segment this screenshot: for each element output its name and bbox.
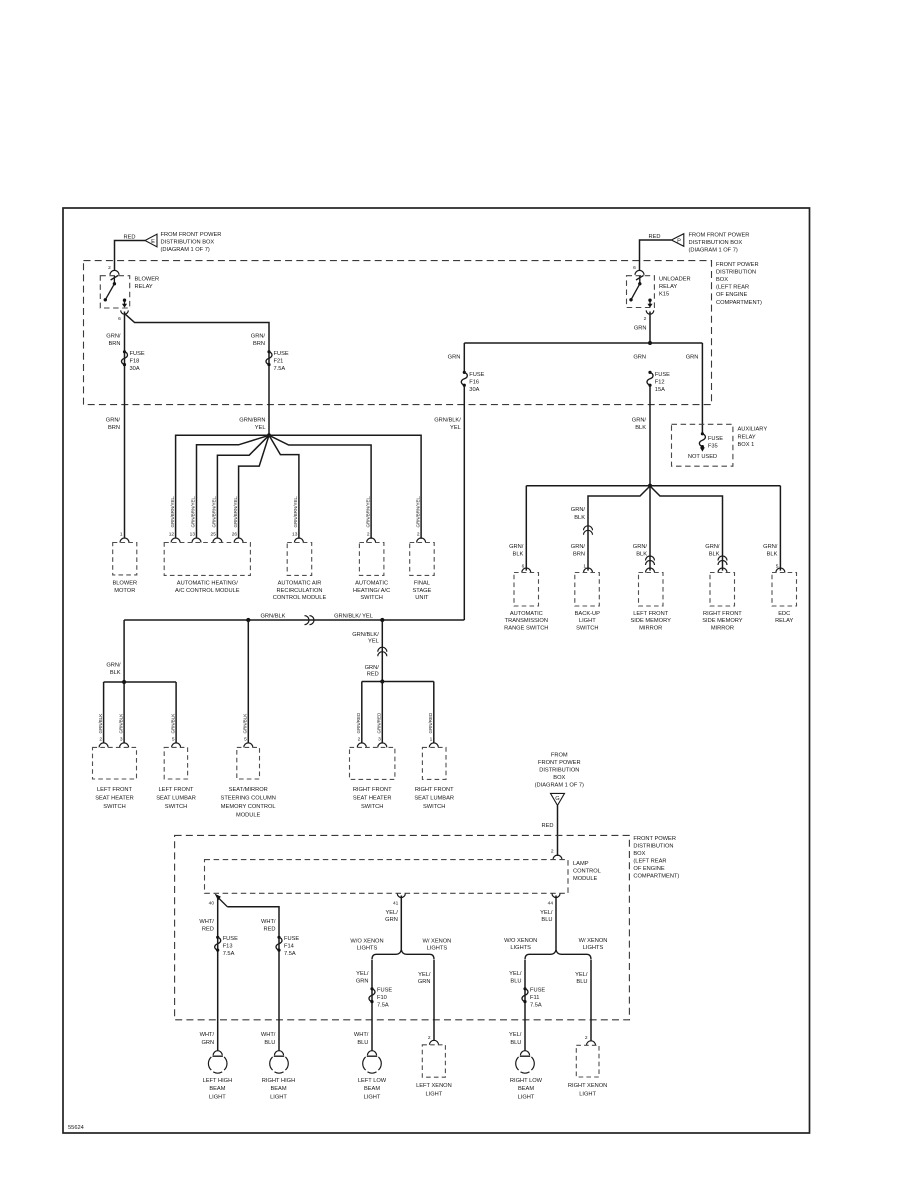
node junction GRN/BLK (right group) bbox=[648, 484, 652, 488]
svg-text:41: 41 bbox=[393, 901, 399, 907]
svg-text:3: 3 bbox=[378, 737, 381, 743]
svg-text:SWITCH: SWITCH bbox=[576, 625, 598, 631]
svg-text:1: 1 bbox=[120, 532, 123, 538]
svg-text:FUSE: FUSE bbox=[223, 936, 238, 942]
svg-text:W/O XENON: W/O XENON bbox=[504, 938, 537, 944]
svg-text:GRN/: GRN/ bbox=[632, 418, 647, 424]
svg-text:(DIAGRAM 1 OF 7): (DIAGRAM 1 OF 7) bbox=[535, 783, 584, 789]
svg-text:SEAT LUMBAR: SEAT LUMBAR bbox=[414, 796, 454, 802]
svg-text:GRN/BRN/YEL.: GRN/BRN/YEL. bbox=[191, 496, 196, 528]
svg-text:RED: RED bbox=[367, 671, 379, 677]
svg-text:F14: F14 bbox=[284, 944, 294, 950]
svg-text:FRONT POWER: FRONT POWER bbox=[538, 760, 581, 766]
arrow G (down triangle) bbox=[551, 793, 565, 805]
svg-text:12: 12 bbox=[169, 532, 175, 538]
arrow E: from front power distribution box bbox=[145, 232, 221, 253]
wire seat bus GRN/BLK horizontal bbox=[124, 619, 464, 621]
svg-text:GRN/BLK: GRN/BLK bbox=[243, 714, 248, 734]
svg-text:F35: F35 bbox=[708, 444, 718, 450]
svg-text:RELAY: RELAY bbox=[659, 284, 677, 290]
svg-text:WHT/: WHT/ bbox=[200, 1032, 215, 1038]
relay contact tick bbox=[113, 276, 115, 284]
svg-text:RED: RED bbox=[648, 234, 660, 240]
svg-text:DISTRIBUTION BOX: DISTRIBUTION BOX bbox=[689, 240, 743, 246]
svg-text:CONTROL MODULE: CONTROL MODULE bbox=[273, 595, 327, 601]
wire from unloader relay to junction bbox=[649, 312, 651, 344]
svg-text:F18: F18 bbox=[130, 359, 140, 365]
svg-text:YEL/: YEL/ bbox=[575, 972, 588, 978]
svg-text:7.5A: 7.5A bbox=[223, 951, 235, 957]
unloader relay K15 bbox=[627, 275, 691, 314]
svg-text:LIGHT: LIGHT bbox=[518, 1094, 535, 1100]
wire label GRN/BRN (left) bbox=[106, 334, 121, 348]
wire to right xenon light bbox=[590, 960, 592, 1041]
svg-text:2: 2 bbox=[551, 849, 554, 855]
wire left seat drop GRN/BLK bbox=[123, 620, 125, 682]
svg-text:13: 13 bbox=[292, 532, 298, 538]
svg-text:RIGHT FRONT: RIGHT FRONT bbox=[353, 787, 392, 793]
svg-text:LEFT XENON: LEFT XENON bbox=[416, 1083, 452, 1089]
wire down to fuse F16 bbox=[463, 343, 465, 372]
svg-text:AUTOMATIC: AUTOMATIC bbox=[510, 611, 543, 617]
svg-text:GRN/: GRN/ bbox=[106, 334, 121, 340]
right front seat heater switch bbox=[350, 747, 395, 810]
left low beam light (bulb) bbox=[358, 1051, 387, 1101]
svg-text:NOT USED: NOT USED bbox=[688, 454, 717, 460]
svg-text:BRN: BRN bbox=[108, 425, 120, 431]
svg-text:YEL: YEL bbox=[450, 425, 461, 431]
fuse F18 30A bbox=[122, 350, 145, 372]
svg-text:2: 2 bbox=[358, 737, 361, 743]
svg-text:RED: RED bbox=[202, 927, 214, 933]
wire WHT/RED right (fuse F14 branch) bbox=[227, 907, 279, 1051]
svg-text:GRN: GRN bbox=[356, 979, 369, 985]
svg-text:LEFT FRONT: LEFT FRONT bbox=[97, 787, 132, 793]
right xenon light bbox=[568, 1045, 607, 1097]
pin 40 output with arrow bbox=[209, 894, 228, 907]
svg-text:GRN: GRN bbox=[201, 1040, 214, 1046]
svg-text:W/O XENON: W/O XENON bbox=[350, 938, 383, 944]
svg-text:GRN/BLK: GRN/BLK bbox=[98, 714, 103, 734]
svg-text:MIRROR: MIRROR bbox=[711, 625, 734, 631]
svg-text:MODULE: MODULE bbox=[236, 813, 261, 819]
svg-text:LIGHTS: LIGHTS bbox=[510, 945, 531, 951]
svg-text:FROM: FROM bbox=[551, 753, 568, 759]
svg-text:25: 25 bbox=[211, 532, 217, 538]
svg-text:FUSE: FUSE bbox=[530, 988, 545, 994]
svg-text:UNIT: UNIT bbox=[415, 595, 429, 601]
wire labels row B bbox=[509, 544, 778, 558]
svg-text:GRN: GRN bbox=[686, 355, 699, 361]
svg-text:GRN/BRN/YEL.: GRN/BRN/YEL. bbox=[365, 496, 370, 528]
svg-text:GRN/: GRN/ bbox=[365, 665, 380, 671]
node junction GRN bbox=[648, 341, 652, 345]
connector arc left xenon bbox=[430, 1040, 439, 1045]
svg-text:DISTRIBUTION: DISTRIBUTION bbox=[539, 768, 579, 774]
fuse F35 (not used) bbox=[688, 432, 723, 460]
svg-text:STAGE: STAGE bbox=[412, 588, 431, 594]
svg-text:SEAT LUMBAR: SEAT LUMBAR bbox=[156, 796, 196, 802]
svg-text:BOX: BOX bbox=[553, 775, 565, 781]
wire fan to A/C module pin 26 bbox=[239, 435, 269, 538]
connector arcs on row B box tops bbox=[522, 568, 785, 573]
svg-text:RECIRCULATION: RECIRCULATION bbox=[276, 588, 322, 594]
connector arcs on row A box tops bbox=[120, 538, 426, 543]
wire fan to A/C switch bbox=[269, 435, 371, 539]
wire to fuse F11 bbox=[524, 960, 526, 1051]
svg-text:26: 26 bbox=[232, 532, 238, 538]
svg-text:30A: 30A bbox=[469, 387, 479, 393]
svg-text:BLK: BLK bbox=[574, 515, 585, 521]
svg-text:FUSE: FUSE bbox=[655, 372, 670, 378]
svg-text:LIGHT: LIGHT bbox=[270, 1094, 287, 1100]
svg-text:HEATING/ A/C: HEATING/ A/C bbox=[353, 588, 390, 594]
svg-text:2: 2 bbox=[428, 1035, 431, 1041]
arrow P: from front power distribution box bbox=[671, 233, 749, 254]
fuse F10 7.5A bbox=[369, 987, 392, 1009]
svg-text:2: 2 bbox=[644, 316, 647, 322]
svg-text:GRN/: GRN/ bbox=[106, 663, 121, 669]
svg-text:LIGHT: LIGHT bbox=[209, 1094, 226, 1100]
svg-text:E: E bbox=[151, 239, 155, 245]
svg-text:GRN: GRN bbox=[634, 326, 647, 332]
svg-text:F16: F16 bbox=[469, 380, 479, 386]
wire color labels above lights bbox=[200, 1032, 522, 1046]
svg-text:GRN/BRN/YEL.: GRN/BRN/YEL. bbox=[233, 496, 238, 528]
svg-text:5: 5 bbox=[172, 737, 175, 743]
connector on right seat drop bbox=[378, 647, 387, 656]
svg-text:LEFT FRONT: LEFT FRONT bbox=[633, 611, 668, 617]
node dot steering module tap bbox=[246, 618, 250, 622]
wire WHT/RED left (fuse F13 branch) bbox=[217, 898, 219, 1052]
svg-text:BEAM: BEAM bbox=[270, 1086, 286, 1092]
svg-text:AUTOMATIC HEATING/: AUTOMATIC HEATING/ bbox=[177, 581, 238, 587]
split bracket YEL/BLU bbox=[525, 950, 591, 960]
svg-text:WHT/: WHT/ bbox=[199, 919, 214, 925]
pin numbers row A bbox=[120, 532, 420, 538]
svg-text:FUSE: FUSE bbox=[377, 988, 392, 994]
svg-text:YEL/: YEL/ bbox=[418, 972, 431, 978]
svg-text:RED: RED bbox=[541, 823, 553, 829]
wire from blower relay down to blower motor bbox=[124, 312, 126, 539]
final stage unit bbox=[410, 543, 435, 602]
dashed box: front power distribution box (bottom) bbox=[175, 835, 630, 1019]
outer border frame bbox=[63, 208, 810, 1133]
svg-text:RIGHT LOW: RIGHT LOW bbox=[510, 1078, 543, 1084]
svg-text:BLK: BLK bbox=[636, 551, 647, 557]
svg-text:(DIAGRAM 1 OF 7): (DIAGRAM 1 OF 7) bbox=[161, 247, 210, 253]
svg-text:RED: RED bbox=[263, 927, 275, 933]
svg-text:(LEFT REAR: (LEFT REAR bbox=[633, 858, 666, 864]
svg-text:BLK: BLK bbox=[767, 551, 778, 557]
wire RED to arrow P (top right) bbox=[640, 234, 672, 271]
connector on LF mirror wire bbox=[646, 556, 655, 565]
svg-text:A/C CONTROL MODULE: A/C CONTROL MODULE bbox=[175, 588, 240, 594]
svg-text:BACK-UP: BACK-UP bbox=[575, 611, 600, 617]
svg-text:F21: F21 bbox=[274, 359, 284, 365]
wire right seat splits bbox=[362, 681, 434, 683]
pin numbers row C bbox=[99, 737, 432, 743]
svg-text:BLK: BLK bbox=[709, 551, 720, 557]
svg-text:YEL/: YEL/ bbox=[385, 910, 398, 916]
svg-text:3: 3 bbox=[120, 737, 123, 743]
svg-text:DISTRIBUTION BOX: DISTRIBUTION BOX bbox=[161, 239, 215, 245]
automatic heating / A/C control module bbox=[164, 543, 250, 594]
wire to right front side memory mirror bbox=[650, 486, 723, 571]
wire GRN/BLK from F12 down to mirror junction bbox=[649, 385, 651, 486]
lamp control module bbox=[205, 860, 601, 894]
svg-text:GRN/BLK/ YEL: GRN/BLK/ YEL bbox=[334, 614, 373, 620]
labels w/o xenon - w/ xenon (left pair) bbox=[350, 938, 451, 951]
fuse F14 7.5A bbox=[276, 936, 299, 958]
svg-text:W/ XENON: W/ XENON bbox=[423, 938, 452, 944]
svg-text:1: 1 bbox=[430, 737, 433, 743]
svg-text:BRN: BRN bbox=[573, 551, 585, 557]
svg-text:YEL/: YEL/ bbox=[509, 971, 522, 977]
svg-text:BLU: BLU bbox=[510, 1040, 521, 1046]
svg-text:LIGHT: LIGHT bbox=[364, 1094, 381, 1100]
svg-text:F13: F13 bbox=[223, 944, 233, 950]
svg-text:2: 2 bbox=[99, 737, 102, 743]
connector arc at unloader relay input bbox=[635, 270, 644, 275]
automatic heating/ A/C switch bbox=[353, 543, 390, 602]
svg-text:55624: 55624 bbox=[68, 1125, 84, 1131]
svg-text:BLU: BLU bbox=[541, 917, 552, 923]
svg-text:YEL/: YEL/ bbox=[509, 1032, 522, 1038]
svg-text:SWITCH: SWITCH bbox=[360, 595, 382, 601]
svg-text:WHT/: WHT/ bbox=[354, 1032, 369, 1038]
svg-text:EDC: EDC bbox=[778, 611, 790, 617]
svg-text:GRN/RED: GRN/RED bbox=[356, 712, 361, 734]
wire label GRN/BLK (back-up, upper) bbox=[571, 507, 586, 521]
svg-text:RIGHT FRONT: RIGHT FRONT bbox=[703, 611, 742, 617]
svg-text:SEAT HEATER: SEAT HEATER bbox=[95, 796, 134, 802]
wire RED to arrow E (top left) bbox=[115, 235, 146, 271]
right high beam light (bulb) bbox=[262, 1051, 295, 1101]
pin 41 output bbox=[397, 894, 405, 898]
automatic air recirculation control module bbox=[273, 543, 327, 602]
svg-text:SIDE MEMORY: SIDE MEMORY bbox=[702, 618, 743, 624]
svg-text:BEAM: BEAM bbox=[209, 1086, 225, 1092]
svg-text:7.5A: 7.5A bbox=[274, 366, 286, 372]
svg-text:7.5A: 7.5A bbox=[284, 951, 296, 957]
svg-text:YEL/: YEL/ bbox=[356, 971, 369, 977]
auxiliary relay box 1 bbox=[672, 424, 768, 466]
svg-text:F11: F11 bbox=[530, 995, 539, 1001]
svg-text:FRONT POWER: FRONT POWER bbox=[633, 836, 676, 842]
svg-text:(LEFT REAR: (LEFT REAR bbox=[716, 285, 749, 291]
left front seat lumbar switch bbox=[156, 747, 196, 810]
svg-text:GRN: GRN bbox=[633, 355, 646, 361]
svg-text:BLK: BLK bbox=[110, 670, 121, 676]
wire steering module drop bbox=[247, 620, 249, 743]
svg-text:GRN/: GRN/ bbox=[509, 544, 524, 550]
connector arc at blower relay input bbox=[110, 270, 119, 275]
wire fan to A/C module pin 13 bbox=[197, 435, 270, 538]
svg-text:OF ENGINE: OF ENGINE bbox=[633, 866, 664, 872]
svg-text:BOX: BOX bbox=[633, 851, 645, 857]
node left seat junction bbox=[122, 680, 126, 684]
svg-text:MEMORY CONTROL: MEMORY CONTROL bbox=[221, 804, 276, 810]
svg-text:GRN/: GRN/ bbox=[571, 507, 586, 513]
svg-text:TRANSMISSION: TRANSMISSION bbox=[505, 618, 548, 624]
svg-text:GRN/BRN/YEL.: GRN/BRN/YEL. bbox=[415, 496, 420, 528]
node GRN/BRN YEL junction label bbox=[239, 418, 265, 432]
svg-text:FUSE: FUSE bbox=[130, 351, 145, 357]
svg-text:LIGHTS: LIGHTS bbox=[427, 946, 448, 952]
svg-text:40: 40 bbox=[209, 901, 215, 907]
svg-text:AUXILIARY: AUXILIARY bbox=[738, 427, 768, 433]
wire YEL/GRN feed bbox=[400, 896, 402, 950]
svg-text:GRN: GRN bbox=[448, 355, 461, 361]
svg-text:BLU: BLU bbox=[357, 1040, 368, 1046]
svg-text:GRN/BRN/YEL.: GRN/BRN/YEL. bbox=[212, 496, 217, 528]
svg-text:FUSE: FUSE bbox=[708, 436, 723, 442]
svg-text:FROM FRONT POWER: FROM FRONT POWER bbox=[161, 232, 222, 238]
svg-text:GRN/RED: GRN/RED bbox=[377, 712, 382, 734]
svg-text:2: 2 bbox=[417, 532, 420, 538]
svg-text:SWITCH: SWITCH bbox=[423, 804, 445, 810]
connector arcs on row C box tops bbox=[99, 743, 438, 748]
connector on back-up wire bbox=[584, 526, 593, 535]
svg-text:LIGHT: LIGHT bbox=[579, 1091, 596, 1097]
svg-text:LIGHTS: LIGHTS bbox=[357, 946, 378, 952]
svg-text:BLU: BLU bbox=[510, 979, 521, 985]
svg-text:BLOWER: BLOWER bbox=[112, 581, 137, 587]
svg-text:LAMP: LAMP bbox=[573, 861, 589, 867]
right front seat lumbar switch bbox=[414, 747, 454, 810]
svg-text:GRN/: GRN/ bbox=[633, 544, 648, 550]
svg-text:SWITCH: SWITCH bbox=[361, 804, 383, 810]
svg-text:AUTOMATIC AIR: AUTOMATIC AIR bbox=[278, 581, 322, 587]
svg-text:GRN/: GRN/ bbox=[763, 544, 778, 550]
svg-text:LEFT FRONT: LEFT FRONT bbox=[159, 787, 194, 793]
svg-text:WHT/: WHT/ bbox=[261, 1032, 276, 1038]
svg-text:FINAL: FINAL bbox=[414, 581, 430, 587]
wire branch from relay to fuse F21 column bbox=[125, 314, 270, 436]
svg-text:7.5A: 7.5A bbox=[377, 1003, 389, 1009]
svg-text:BRN: BRN bbox=[253, 341, 265, 347]
node right seat junction bbox=[380, 679, 384, 683]
connector on RF mirror wire bbox=[718, 556, 727, 565]
connector arc right xenon bbox=[587, 1041, 596, 1046]
svg-text:BEAM: BEAM bbox=[518, 1086, 534, 1092]
wire labels GRN/BRN/YEL (rotated) bbox=[170, 496, 420, 528]
svg-text:COMPARTMENT): COMPARTMENT) bbox=[716, 300, 762, 306]
svg-text:GRN/BRN: GRN/BRN bbox=[239, 418, 265, 424]
seat/mirror steering column memory control module bbox=[221, 747, 276, 818]
svg-text:MODULE: MODULE bbox=[573, 876, 598, 882]
wire to fuse F10 bbox=[371, 960, 373, 1051]
wire RED into lamp control module bbox=[557, 805, 559, 856]
svg-text:44: 44 bbox=[548, 901, 554, 907]
wire bus to auto trans range switch / EDC relay bbox=[526, 485, 780, 487]
wire to back-up light switch bbox=[588, 486, 650, 571]
svg-text:RIGHT FRONT: RIGHT FRONT bbox=[415, 787, 454, 793]
svg-text:OF ENGINE: OF ENGINE bbox=[716, 292, 747, 298]
right low beam light (bulb) bbox=[510, 1051, 543, 1101]
svg-text:RIGHT XENON: RIGHT XENON bbox=[568, 1083, 607, 1089]
pin 44 output bbox=[552, 894, 560, 898]
dashed box: front power distribution box (top) bbox=[84, 261, 712, 405]
connector arc lamp module input bbox=[553, 855, 562, 860]
svg-text:UNLOADER: UNLOADER bbox=[659, 276, 691, 282]
back-up light switch bbox=[575, 573, 600, 632]
svg-text:6: 6 bbox=[118, 316, 121, 322]
node fan junction GRN/BRN YEL bbox=[267, 433, 271, 437]
svg-text:BLK: BLK bbox=[635, 425, 646, 431]
blower motor bbox=[112, 543, 137, 594]
svg-text:BLU: BLU bbox=[576, 979, 587, 985]
svg-text:RANGE SWITCH: RANGE SWITCH bbox=[504, 625, 548, 631]
svg-text:BLK: BLK bbox=[513, 551, 524, 557]
wire YEL/BLU feed bbox=[555, 896, 557, 950]
wire fan to A/C module pin 12 bbox=[176, 435, 269, 538]
wire label GRN/BRN (middle) bbox=[251, 334, 266, 348]
svg-text:GRN/BLK/: GRN/BLK/ bbox=[434, 418, 461, 424]
inline connector on bus bbox=[305, 616, 315, 625]
wire labels rotated GRN/BLK and GRN/RED bbox=[98, 712, 433, 734]
svg-text:FUSE: FUSE bbox=[274, 351, 289, 357]
label: front power distribution box (bottom right) bbox=[633, 836, 679, 880]
svg-text:RELAY: RELAY bbox=[738, 434, 756, 440]
svg-text:SIDE MEMORY: SIDE MEMORY bbox=[631, 618, 672, 624]
svg-text:LIGHT: LIGHT bbox=[579, 618, 596, 624]
blower relay bbox=[100, 275, 159, 314]
wire to left front side memory mirror bbox=[649, 486, 651, 571]
svg-text:GRN/: GRN/ bbox=[106, 418, 121, 424]
svg-text:BEAM: BEAM bbox=[364, 1086, 380, 1092]
svg-text:6: 6 bbox=[633, 265, 636, 271]
svg-text:5: 5 bbox=[244, 737, 247, 743]
svg-text:F12: F12 bbox=[655, 380, 665, 386]
svg-text:2: 2 bbox=[108, 265, 111, 271]
wire fan to final stage unit bbox=[269, 435, 421, 539]
svg-text:GRN/: GRN/ bbox=[705, 544, 720, 550]
svg-text:YEL: YEL bbox=[368, 639, 379, 645]
fuse F21 7.5A bbox=[266, 350, 289, 372]
right front side memory mirror bbox=[702, 573, 743, 632]
svg-text:BOX 1: BOX 1 bbox=[738, 442, 755, 448]
svg-text:W/ XENON: W/ XENON bbox=[579, 938, 608, 944]
fuse F12 15A bbox=[647, 371, 670, 393]
svg-text:FUSE: FUSE bbox=[284, 936, 299, 942]
svg-text:P: P bbox=[677, 238, 681, 244]
svg-text:COMPARTMENT): COMPARTMENT) bbox=[633, 873, 679, 879]
svg-text:SWITCH: SWITCH bbox=[165, 804, 187, 810]
svg-text:GRN/BRN/YEL.: GRN/BRN/YEL. bbox=[293, 496, 298, 528]
fuse F13 7.5A bbox=[215, 936, 238, 958]
svg-text:STEERING COLUMN: STEERING COLUMN bbox=[221, 796, 276, 802]
wire to left xenon light bbox=[433, 960, 435, 1041]
svg-text:RELAY: RELAY bbox=[135, 284, 153, 290]
svg-text:BLU: BLU bbox=[264, 1040, 275, 1046]
svg-text:BLOWER: BLOWER bbox=[135, 276, 160, 282]
svg-text:FROM FRONT POWER: FROM FRONT POWER bbox=[689, 233, 750, 239]
svg-text:LEFT LOW: LEFT LOW bbox=[358, 1078, 387, 1084]
svg-text:DISTRIBUTION: DISTRIBUTION bbox=[716, 269, 756, 275]
svg-text:F10: F10 bbox=[377, 995, 387, 1001]
svg-text:LIGHT: LIGHT bbox=[426, 1091, 443, 1097]
svg-text:30A: 30A bbox=[130, 366, 140, 372]
svg-text:RELAY: RELAY bbox=[775, 618, 793, 624]
svg-text:RIGHT HIGH: RIGHT HIGH bbox=[262, 1078, 295, 1084]
split bracket YEL/GRN bbox=[372, 950, 434, 960]
fuse F11 7.5A bbox=[522, 987, 545, 1009]
wire down to aux relay box bbox=[701, 343, 703, 434]
labels w/o xenon - w/ xenon (right pair) bbox=[504, 938, 607, 951]
svg-text:GRN/: GRN/ bbox=[251, 334, 266, 340]
